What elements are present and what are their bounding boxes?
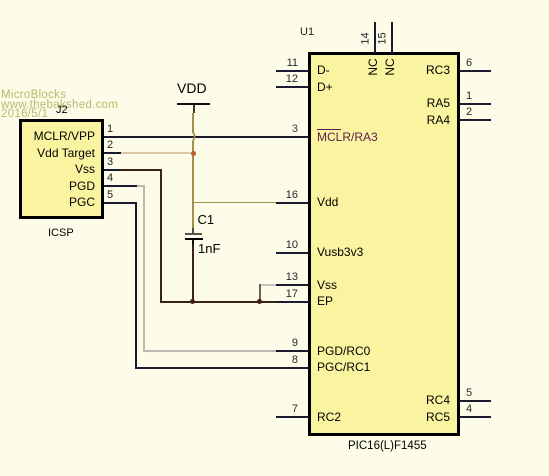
pin stub 5: [459, 400, 491, 402]
pin number 9: [276, 338, 298, 349]
IC U1 body: [308, 52, 460, 436]
pin name EP: [317, 295, 333, 307]
pin name PGC/RC1: [317, 361, 370, 373]
pin stub 6: [459, 70, 491, 72]
pin stub 13: [276, 284, 309, 286]
wire VDD orange vertical lower: [192, 141, 194, 233]
VDD supply symbol stub: [193, 105, 195, 113]
pin number 2: [466, 107, 472, 118]
J2 pin name PGD: [0, 180, 95, 192]
pin stub 1: [459, 103, 491, 105]
pin number 11: [276, 58, 298, 69]
wire Vss maroon vertical: [160, 169, 162, 304]
pin number 16: [276, 190, 298, 201]
pin stub 3: [276, 136, 309, 138]
pin number 7: [276, 404, 298, 415]
pin name RC2: [317, 411, 341, 423]
pin stub 8: [276, 367, 309, 369]
ICSP value label: [48, 227, 74, 239]
pin name RC3: [380, 64, 450, 76]
overline over MCLR: [317, 129, 341, 131]
wire MCLR net J2.1 to U1.3: [104, 136, 276, 138]
wire pin13 gray jog horizontal: [259, 284, 276, 286]
capacitor C1 refdes: [198, 213, 215, 226]
capacitor C1 bottom lead: [192, 240, 194, 246]
wire PGC navy horizontal to U1.8: [135, 367, 276, 369]
wire PGD gray horizontal top: [137, 185, 145, 187]
J2 pin name MCLR/VPP: [0, 130, 95, 142]
pin number 5: [466, 388, 472, 399]
pin name NC (pin 14) rotated: [367, 53, 379, 81]
VDD supply symbol bar: [177, 103, 210, 105]
pin stub 15 vertical: [391, 22, 393, 53]
pin name Vss: [317, 279, 337, 291]
J2 pin number 2: [107, 140, 113, 151]
junction dot pin13 bracket/Vss: [257, 299, 262, 304]
capacitor C1 value 1nF: [198, 242, 220, 255]
pin name Vusb3v3: [317, 246, 363, 258]
pin name RC4: [380, 394, 450, 406]
pin stub 14 vertical: [374, 22, 376, 53]
VDD supply symbol text: [177, 81, 207, 95]
pin number 15 rotated: [377, 27, 388, 49]
pin number 6: [466, 58, 472, 69]
pin name MCLR/RA3: [317, 131, 378, 143]
pin stub 2: [459, 119, 491, 121]
pin name RC5: [380, 411, 450, 423]
pin number 3: [276, 124, 298, 135]
pin number 1: [466, 91, 472, 102]
wire pin13 gray jog vertical: [259, 284, 261, 302]
pin stub 7: [276, 416, 309, 418]
pin number 12: [276, 74, 298, 85]
wire Vss maroon bottom horizontal to U1.17: [160, 301, 277, 303]
J2 pin number 1: [107, 124, 113, 135]
U1 value label PIC16(L)F1455: [348, 440, 427, 452]
pin name D+: [317, 81, 333, 93]
wire Vdd Target tan segment: [121, 152, 194, 154]
connector J2 body: [19, 119, 104, 219]
wire PGC navy horizontal from J2.5: [104, 202, 137, 204]
wire Vss maroon horizontal from J2.3: [121, 169, 162, 171]
wire PGD gray horizontal to U1.9: [143, 350, 277, 352]
wire PGD gray vertical: [143, 185, 145, 352]
pin number 8: [276, 355, 298, 366]
pin name NC (pin 15) rotated: [384, 53, 396, 81]
pin name D-: [317, 64, 330, 76]
J2 refdes label: [56, 104, 68, 116]
pin number 10: [276, 240, 298, 251]
pin number 17: [276, 289, 298, 300]
J2 pin name Vdd Target: [0, 147, 95, 159]
capacitor C1 top lead: [192, 228, 194, 233]
junction dot C1/Vss: [190, 299, 195, 304]
capacitor C1 top plate: [185, 233, 202, 235]
wire C1 lead to Vss: [192, 245, 194, 302]
watermark MicroBlocks: [1, 91, 118, 120]
wire VDD orange horizontal to U1.16: [192, 202, 276, 204]
U1 refdes label: [300, 26, 314, 38]
pin stub 10: [276, 252, 309, 254]
pin name PGD/RC0: [317, 345, 370, 357]
pin number 14 rotated: [361, 27, 372, 49]
pin number 13: [276, 272, 298, 283]
pin stub 9: [276, 350, 309, 352]
pin stub 17: [276, 301, 309, 303]
wire PGC navy vertical: [135, 202, 137, 369]
pin name RA5: [380, 97, 450, 109]
J2 pin name Vss: [0, 163, 95, 175]
junction dot Vdd Target: [191, 151, 196, 156]
wire VDD orange vertical upper (above hop): [192, 113, 194, 133]
wire J2.3 stub: [104, 169, 121, 171]
wire J2.4 stub: [104, 185, 137, 187]
pin name Vdd: [317, 196, 338, 208]
pin number 4: [466, 404, 472, 415]
pin stub 16: [276, 202, 309, 204]
pin name RA4: [380, 114, 450, 126]
pin stub 11: [276, 70, 309, 72]
J2 pin name PGC: [0, 196, 95, 208]
J2 pin number 3: [107, 157, 113, 168]
wire J2.2 stub: [104, 152, 121, 154]
pin stub 12: [276, 86, 309, 88]
wire hop arc over MCLR: [191, 132, 200, 141]
J2 pin number 4: [107, 173, 113, 184]
J2 pin number 5: [107, 190, 113, 201]
capacitor C1 bottom plate: [185, 238, 203, 240]
pin stub 4: [459, 416, 491, 418]
